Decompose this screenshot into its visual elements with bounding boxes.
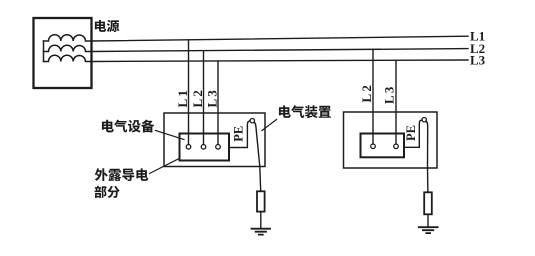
winding W3 (44, 55, 92, 61)
wire drop L2 middle (203, 51, 205, 145)
terminal T4 (371, 144, 376, 149)
power source box (34, 18, 92, 88)
label 电气设备 (102, 120, 154, 133)
svg-text:PE: PE (232, 126, 246, 142)
PE link terminal right (422, 118, 426, 122)
label 电源 (95, 20, 119, 32)
line L1 (91, 36, 468, 41)
line L2 (91, 49, 468, 52)
winding W2 (44, 45, 92, 51)
svg-text:L1: L1 (175, 88, 190, 108)
PE link terminal middle (250, 119, 254, 123)
svg-text:L3: L3 (470, 53, 486, 68)
PE bonding wire middle (229, 121, 250, 148)
winding W1 (44, 35, 92, 41)
equipment box (middle) (180, 134, 230, 161)
earthing conductor right (426, 121, 428, 192)
terminal T5 (394, 144, 399, 149)
label 外露导电 (95, 168, 148, 181)
wire drop L2 right (372, 49, 374, 144)
star-point bus wire (43, 41, 45, 62)
earthing conductor middle (254, 122, 261, 191)
ground right (419, 227, 438, 233)
leader line to enclosure (262, 120, 277, 131)
PE bonding wire right (404, 120, 422, 147)
wire drop L1 middle (188, 40, 190, 145)
terminal T3 (216, 145, 221, 150)
svg-text:L2: L2 (359, 83, 374, 103)
label 电气装置 (279, 105, 331, 118)
leader line to equipment box (156, 131, 185, 140)
label 部分 (95, 186, 120, 198)
svg-text:L2: L2 (190, 88, 205, 108)
svg-text:PE: PE (404, 125, 418, 141)
ground middle (252, 229, 271, 235)
leader line to exposed part (150, 159, 179, 174)
installation enclosure box (middle) (164, 113, 265, 167)
wire drop L3 right (395, 60, 397, 144)
terminal T1 (186, 145, 191, 150)
svg-text:L3: L3 (205, 88, 220, 108)
wire drop L3 middle (217, 61, 219, 144)
installation enclosure box (right) (344, 112, 438, 168)
line L3 (91, 60, 468, 62)
terminal T2 (201, 145, 206, 150)
equipment box (right) (361, 134, 405, 158)
wire to ground right (427, 214, 429, 227)
svg-text:L3: L3 (382, 84, 397, 104)
earth resistance middle (257, 191, 265, 211)
wire to ground middle (260, 212, 262, 229)
earth resistance right (424, 192, 432, 214)
